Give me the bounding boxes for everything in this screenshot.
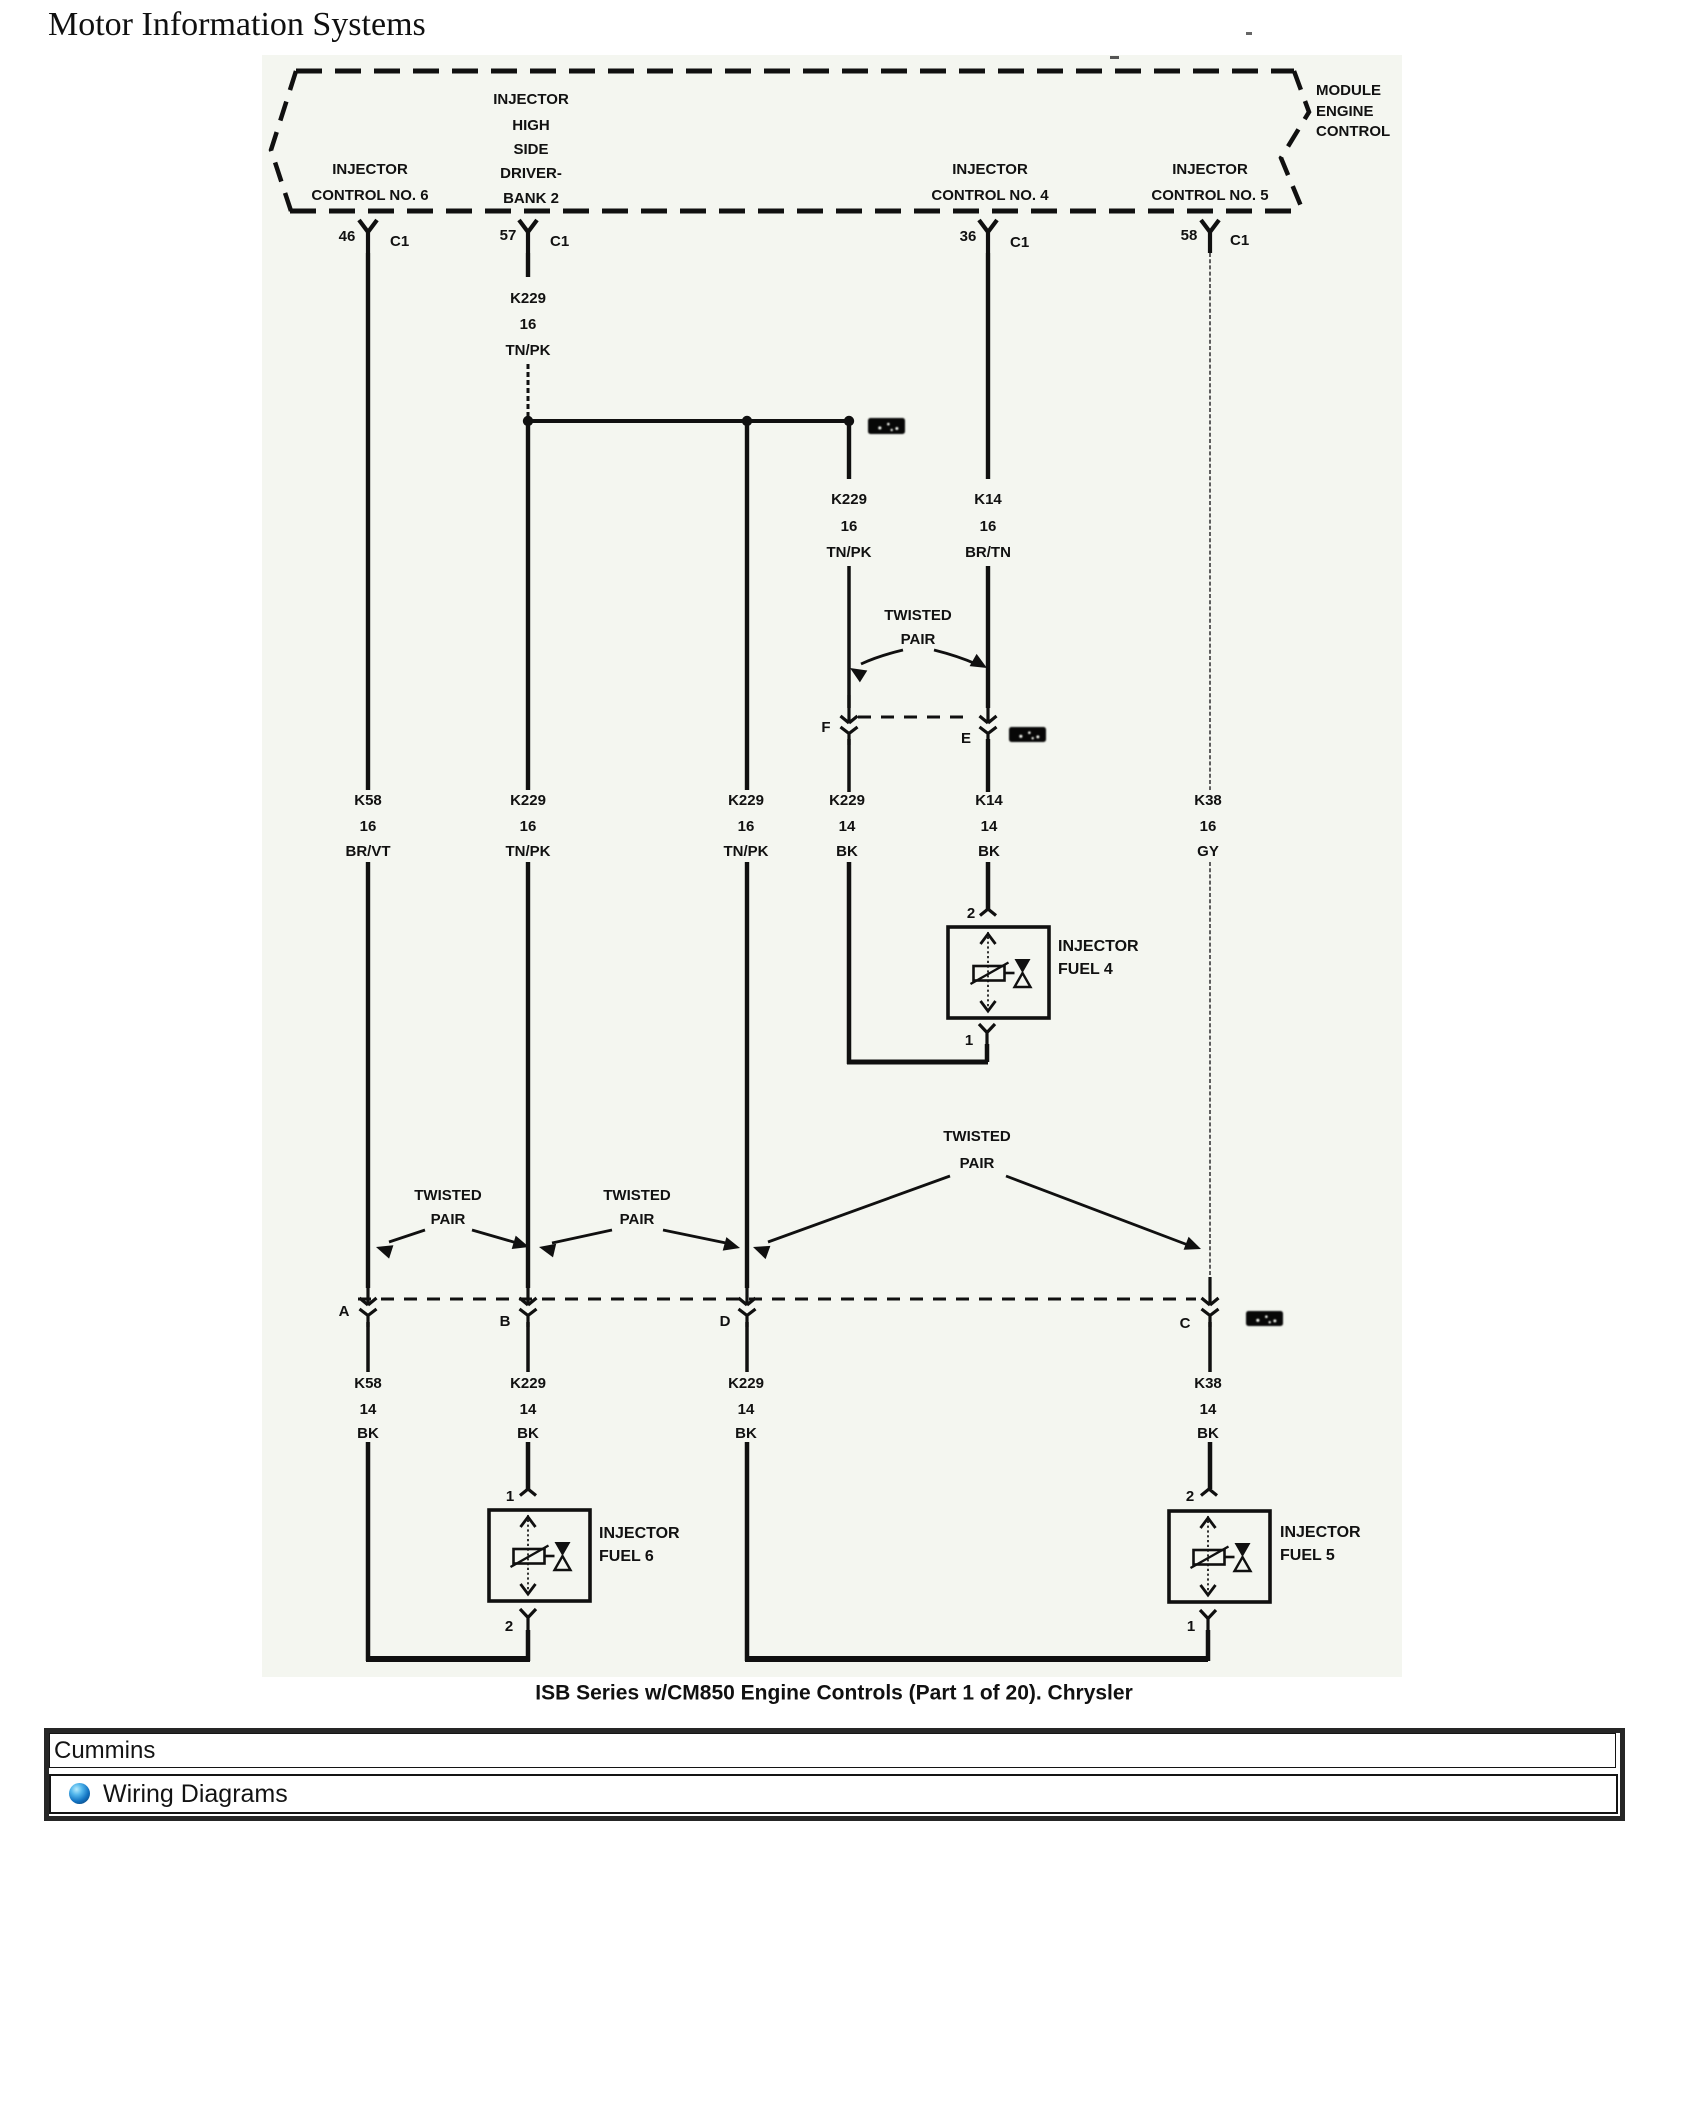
svg-text:2: 2 <box>505 1618 513 1635</box>
injector FUEL 4 box <box>948 927 1049 1018</box>
svg-text:K229: K229 <box>510 1375 546 1392</box>
svg-text:BK: BK <box>836 843 858 860</box>
junction dot at K229 wire <box>523 416 533 426</box>
svg-text:GY: GY <box>1197 843 1219 860</box>
wire elbow to injector fuel 4 pin 1 <box>847 1060 988 1065</box>
wire K14 14 BK to injector fuel 4 pin 2 <box>986 862 991 909</box>
svg-text:FUEL 4: FUEL 4 <box>1058 961 1113 978</box>
svg-text:INJECTOR: INJECTOR <box>1280 1524 1361 1541</box>
svg-text:BK: BK <box>1197 1425 1219 1442</box>
dashed connector line between F and E <box>858 716 971 719</box>
svg-text:K229: K229 <box>728 1375 764 1392</box>
connector label C111 (scan blob) <box>1246 1311 1283 1326</box>
svg-text:INJECTOR: INJECTOR <box>599 1525 680 1542</box>
twisted pair B pointer <box>472 1230 517 1243</box>
svg-text:PAIR: PAIR <box>620 1211 655 1228</box>
injector fuel 4 pin 1 connector half <box>979 1024 995 1050</box>
svg-text:1: 1 <box>965 1032 973 1049</box>
svg-text:16: 16 <box>980 518 997 535</box>
wire K58 below connector A <box>366 1322 370 1372</box>
svg-text:CONTROL NO. 6: CONTROL NO. 6 <box>311 187 428 204</box>
wire K38 thin segment to twisted pair arrow <box>1209 862 1211 1240</box>
svg-text:BK: BK <box>357 1425 379 1442</box>
svg-text:14: 14 <box>839 818 856 835</box>
connector Y pin 58 <box>1201 220 1219 253</box>
wire bottom route from D to injector fuel 5 pin 1 <box>745 1656 1208 1662</box>
wire below connector E <box>986 739 990 792</box>
svg-text:PAIR: PAIR <box>901 631 936 648</box>
injector fuel 5 pin 2 connector half <box>1201 1489 1217 1496</box>
injector FUEL 6 box <box>489 1510 590 1601</box>
twisted pair B2 pointer <box>552 1230 612 1243</box>
svg-text:HIGH: HIGH <box>512 117 550 134</box>
twisted pair long left arrowhead <box>753 1246 770 1259</box>
connector Y pin 36 <box>979 220 997 253</box>
svg-text:46: 46 <box>339 228 356 245</box>
svg-text:TWISTED: TWISTED <box>414 1187 482 1204</box>
twisted pair long right arrowhead <box>1184 1237 1201 1250</box>
svg-text:FUEL 5: FUEL 5 <box>1280 1547 1335 1564</box>
wire K229 below connector B <box>526 1322 530 1372</box>
svg-text:D: D <box>720 1313 731 1330</box>
wire K58 14 BK lower segment <box>366 1442 371 1661</box>
svg-text:TWISTED: TWISTED <box>603 1187 671 1204</box>
injector fuel 5 pin 1 connector half <box>1200 1610 1216 1636</box>
svg-text:FUEL 6: FUEL 6 <box>599 1548 654 1565</box>
svg-text:TN/PK: TN/PK <box>506 342 551 359</box>
svg-text:14: 14 <box>981 818 998 835</box>
connector label C112 (scan blob) <box>1009 727 1046 742</box>
bottom navigation outer box <box>44 1728 1625 1821</box>
svg-text:E: E <box>961 730 971 747</box>
scan background of wiring diagram <box>262 55 1402 1677</box>
twisted pair right pointer <box>934 650 976 664</box>
wire K14 16 BR/TN upper segment <box>986 253 990 479</box>
connector E lower half <box>980 727 997 745</box>
svg-text:INJECTOR: INJECTOR <box>952 161 1028 178</box>
svg-text:TWISTED: TWISTED <box>943 1128 1011 1145</box>
junction dot at splice S118 <box>844 416 854 426</box>
twisted pair left arrowhead <box>850 668 867 682</box>
wire K229 stub below pin 57 <box>526 253 530 277</box>
connector C lower half <box>1202 1309 1219 1327</box>
wire K229 segment to connector B <box>526 862 530 1288</box>
wire K229 segment below splice <box>526 421 530 790</box>
svg-text:C1: C1 <box>1230 232 1249 249</box>
wire injector fuel 4 pin 1 stem <box>985 1044 990 1062</box>
twisted pair B arrowhead <box>512 1236 529 1249</box>
svg-text:ENGINE: ENGINE <box>1316 103 1374 120</box>
wire K58 segment to connector A <box>366 862 370 1288</box>
svg-text:PAIR: PAIR <box>431 1211 466 1228</box>
connector Y pin 57 <box>519 220 537 253</box>
scan speck top middle <box>1110 56 1119 59</box>
svg-text:K38: K38 <box>1194 1375 1222 1392</box>
wire K229 14 BK lower segment (D) <box>745 1442 750 1661</box>
svg-text:BK: BK <box>735 1425 757 1442</box>
svg-text:MODULE: MODULE <box>1316 82 1381 99</box>
svg-text:INJECTOR: INJECTOR <box>332 161 408 178</box>
svg-text:14: 14 <box>1200 1401 1217 1418</box>
svg-text:K229: K229 <box>510 792 546 809</box>
svg-text:INJECTOR: INJECTOR <box>493 91 569 108</box>
svg-text:CONTROL NO. 5: CONTROL NO. 5 <box>1151 187 1268 204</box>
wire K38 14 BK to injector fuel 5 pin 2 <box>1208 1442 1213 1489</box>
wire injector fuel 6 pin 2 stem <box>526 1630 531 1661</box>
wire K229 below connector D <box>745 1322 749 1372</box>
wire K229 (D) from splice down <box>745 421 749 790</box>
twisted pair long left pointer <box>768 1176 950 1242</box>
twisted pair D arrowhead <box>723 1237 740 1251</box>
svg-text:K58: K58 <box>354 1375 382 1392</box>
svg-text:C1: C1 <box>550 233 569 250</box>
svg-text:C1: C1 <box>1010 234 1029 251</box>
wire K229 16 TN/PK to connector F <box>847 566 851 708</box>
svg-text:16: 16 <box>360 818 377 835</box>
svg-text:14: 14 <box>520 1401 537 1418</box>
svg-text:16: 16 <box>520 316 537 333</box>
connector Y pin 46 <box>359 220 377 253</box>
wire K229 14 BK down to elbow <box>847 862 852 1064</box>
injector FUEL 5 box <box>1169 1511 1270 1602</box>
svg-text:INJECTOR: INJECTOR <box>1172 161 1248 178</box>
blue sphere icon <box>69 1783 90 1804</box>
svg-text:B: B <box>500 1313 511 1330</box>
svg-text:K229: K229 <box>831 491 867 508</box>
wire K229 (D) segment to connector D <box>745 862 749 1288</box>
wire K229 stub below splice <box>847 421 851 479</box>
module engine control box top dashed edge <box>296 69 1294 74</box>
svg-text:16: 16 <box>841 518 858 535</box>
svg-text:BR/TN: BR/TN <box>965 544 1011 561</box>
svg-text:DRIVER-: DRIVER- <box>500 165 562 182</box>
wire K38 dotted segment to connector C <box>1209 1240 1211 1280</box>
splice wire from K229 junction to S-splice <box>528 419 851 423</box>
twisted pair D pointer <box>663 1230 726 1243</box>
svg-text:36: 36 <box>960 228 977 245</box>
dashed connector line A-B-D-C <box>358 1298 1196 1301</box>
row Wiring Diagrams <box>49 1774 1618 1814</box>
injector fuel 6 pin 1 connector half <box>520 1489 536 1496</box>
svg-text:K14: K14 <box>974 491 1002 508</box>
module box right zigzag dashed edge <box>1281 71 1309 211</box>
scan speck top right <box>1246 32 1252 35</box>
svg-text:F: F <box>821 719 830 736</box>
connector D upper half <box>739 1277 756 1305</box>
svg-text:INJECTOR: INJECTOR <box>1058 938 1139 955</box>
svg-text:CONTROL NO. 4: CONTROL NO. 4 <box>931 187 1049 204</box>
svg-text:1: 1 <box>1187 1618 1195 1635</box>
svg-text:16: 16 <box>738 818 755 835</box>
svg-text:SIDE: SIDE <box>513 141 548 158</box>
svg-text:TN/PK: TN/PK <box>724 843 769 860</box>
wire K38 16 GY thin scan segment <box>1209 253 1211 790</box>
connector C upper half <box>1202 1277 1219 1305</box>
twisted pair A arrowhead <box>376 1245 393 1258</box>
wire K14 to connector E <box>986 566 990 708</box>
svg-text:58: 58 <box>1181 227 1198 244</box>
connector F upper half <box>841 695 858 723</box>
svg-text:14: 14 <box>360 1401 377 1418</box>
svg-text:K229: K229 <box>829 792 865 809</box>
svg-text:BK: BK <box>978 843 1000 860</box>
svg-text:A: A <box>339 1303 350 1320</box>
twisted pair left pointer <box>861 650 903 664</box>
connector A lower half <box>360 1309 377 1327</box>
wire K229 14 BK to injector fuel 6 pin 1 <box>526 1442 531 1489</box>
svg-text:2: 2 <box>1186 1488 1194 1505</box>
svg-text:BANK 2: BANK 2 <box>503 190 559 207</box>
wire bottom route from K58 to injector fuel 6 pin 2 <box>366 1656 530 1662</box>
wire K58 16 BR/VT upper segment <box>366 253 370 790</box>
module box left zigzag dashed edge <box>271 71 296 211</box>
svg-text:16: 16 <box>1200 818 1217 835</box>
svg-text:CONTROL: CONTROL <box>1316 123 1390 140</box>
svg-text:2: 2 <box>967 905 975 922</box>
twisted pair B2 arrowhead <box>539 1244 556 1258</box>
svg-text:BR/VT: BR/VT <box>346 843 391 860</box>
connector D lower half <box>739 1309 756 1327</box>
twisted pair A pointer <box>389 1230 425 1242</box>
junction dot mid splice <box>742 416 752 426</box>
injector fuel 6 pin 2 connector half <box>520 1609 536 1635</box>
connector E upper half <box>980 695 997 723</box>
svg-text:K38: K38 <box>1194 792 1222 809</box>
svg-text:BK: BK <box>517 1425 539 1442</box>
svg-text:TWISTED: TWISTED <box>884 607 952 624</box>
wire injector fuel 5 pin 1 stem <box>1206 1630 1211 1661</box>
connector B lower half <box>520 1309 537 1327</box>
svg-text:PAIR: PAIR <box>960 1155 995 1172</box>
svg-text:K229: K229 <box>728 792 764 809</box>
injector fuel 4 pin 2 connector half <box>980 909 996 916</box>
svg-text:57: 57 <box>500 227 517 244</box>
svg-text:K229: K229 <box>510 290 546 307</box>
connector B upper half <box>520 1277 537 1305</box>
module box bottom dashed edge <box>290 209 1303 214</box>
svg-text:C1: C1 <box>390 233 409 250</box>
splice label S118 (scan blob) <box>868 418 905 434</box>
connector A upper half <box>360 1277 377 1305</box>
svg-text:16: 16 <box>520 818 537 835</box>
twisted pair right arrowhead <box>970 654 987 668</box>
row Cummins <box>49 1733 1616 1768</box>
wire below connector F <box>847 739 851 792</box>
svg-text:ISB Series w/CM850 Engine Cont: ISB Series w/CM850 Engine Controls (Part… <box>535 1682 1133 1705</box>
wire K229 rough segment above splice <box>527 364 530 421</box>
svg-text:C: C <box>1180 1315 1191 1332</box>
svg-text:K14: K14 <box>975 792 1003 809</box>
svg-text:1: 1 <box>506 1488 514 1505</box>
twisted pair long right pointer <box>1006 1176 1188 1245</box>
svg-text:K58: K58 <box>354 792 382 809</box>
connector F lower half <box>841 727 858 745</box>
svg-text:14: 14 <box>738 1401 755 1418</box>
wire K38 below connector C <box>1208 1322 1212 1372</box>
svg-text:TN/PK: TN/PK <box>827 544 872 561</box>
svg-text:TN/PK: TN/PK <box>506 843 551 860</box>
